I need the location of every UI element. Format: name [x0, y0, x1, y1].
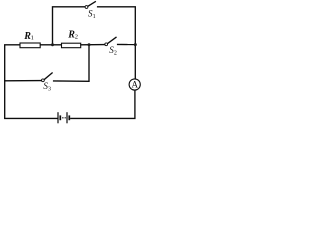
wire top-right segment — [98, 7, 136, 79]
wire S3 row left — [5, 80, 42, 82]
battery B1 — [58, 112, 69, 123]
node junction J2 — [88, 43, 91, 46]
resistor R2 — [62, 43, 81, 48]
svg-text:A: A — [131, 80, 138, 90]
node junction J1 — [51, 43, 54, 46]
svg-text:1: 1 — [93, 14, 96, 20]
node junction J3 — [134, 43, 137, 46]
svg-text:2: 2 — [114, 51, 117, 57]
svg-text:2: 2 — [75, 34, 78, 41]
wire R2 to S2 — [81, 44, 105, 46]
wire middle-row left — [5, 45, 20, 81]
resistor R1 — [20, 43, 40, 48]
wire between R1 and R2 — [41, 44, 62, 46]
wire bottom-left segment — [5, 81, 58, 119]
wire S3 to branch corner — [54, 45, 89, 82]
wire S2 to right rail — [118, 43, 136, 45]
ammeter A1 — [129, 79, 140, 90]
wire right rail below ammeter — [71, 91, 135, 119]
switch S3 — [42, 73, 53, 82]
switch S2 — [105, 37, 116, 45]
switch S1 — [85, 2, 95, 9]
svg-text:1: 1 — [31, 35, 34, 42]
wire top-left segment — [53, 7, 85, 45]
svg-text:3: 3 — [48, 87, 51, 93]
